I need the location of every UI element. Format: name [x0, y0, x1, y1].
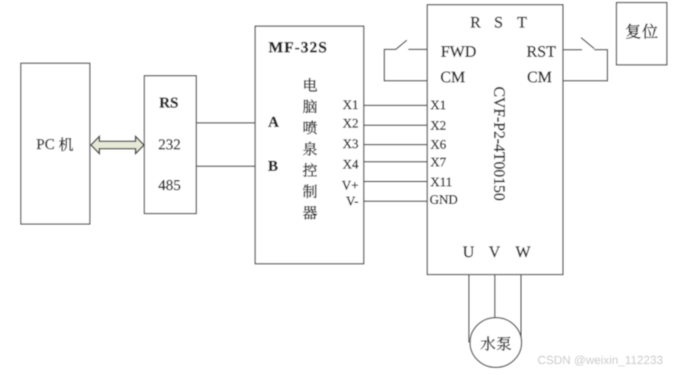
terminal CM (left): [441, 72, 465, 83]
terminal T: [517, 17, 526, 28]
wire down to CM (left): [383, 49, 385, 81]
pin label V+ (MF-32S): [342, 181, 358, 190]
terminal R: [471, 17, 481, 28]
terminal X2 (CVF): [431, 121, 446, 130]
box 复位 (reset): [617, 3, 667, 65]
pin label X1 (MF-32S): [343, 100, 358, 109]
terminal CM (right): [528, 72, 552, 83]
wire to X1: [364, 104, 428, 106]
switch blade (RST): [581, 38, 594, 49]
terminal RST: [527, 46, 556, 57]
motor 水泵 (pump) circle: [470, 318, 521, 368]
pin label V- (MF-32S): [346, 197, 358, 206]
wire switch right segment: [594, 49, 607, 51]
terminal W: [516, 247, 531, 258]
terminal S: [495, 17, 502, 28]
label RS: [160, 98, 178, 108]
switch blade (FWD): [396, 40, 407, 49]
pin label X3 (MF-32S): [343, 139, 358, 148]
terminal FWD: [441, 46, 475, 57]
label MF-32S: [269, 42, 326, 53]
terminal V: [489, 247, 500, 258]
label 485: [159, 180, 181, 190]
pin label A: [268, 117, 279, 127]
wire to CM terminal (left): [384, 80, 427, 82]
pin label X4 (MF-32S): [343, 160, 358, 169]
watermark CSDN @weixin_112233: [538, 356, 662, 367]
terminal U: [463, 247, 474, 258]
wire to X11: [364, 181, 428, 183]
connector double arrow: [91, 137, 144, 154]
pin label X2 (MF-32S): [343, 119, 358, 128]
label 232: [159, 139, 180, 149]
terminal X1 (CVF): [431, 101, 446, 110]
wire to X2: [364, 124, 428, 126]
wire to CM terminal (right): [563, 80, 608, 82]
wire to X6: [364, 144, 428, 146]
wire to X7: [364, 161, 428, 163]
terminal X6 (CVF): [431, 140, 446, 149]
wire A: RS box to MF-32S: [196, 122, 255, 124]
wire B: RS box to MF-32S: [196, 165, 255, 167]
wire switch left segment: [384, 48, 396, 50]
wire FWD stub: [408, 48, 427, 50]
wire U phase: [468, 274, 470, 342]
pin label B: [268, 161, 277, 171]
label PC机: [37, 137, 73, 151]
label 电脑喷泉控制器 (vertical): [303, 78, 317, 219]
wire down to CM (right): [606, 49, 608, 81]
wire W phase: [520, 274, 522, 340]
wire RST stub: [563, 49, 582, 51]
terminal X11 (CVF): [431, 178, 452, 187]
wire V phase: [494, 274, 496, 318]
label 复位: [626, 24, 658, 39]
label CVF-P2-4T00150 (vertical): [494, 87, 505, 200]
box MF-32S controller: [255, 26, 364, 264]
box PC: [21, 63, 90, 224]
label 水泵: [481, 336, 511, 350]
wire to GND: [364, 200, 428, 202]
box RS232/485: [144, 76, 196, 214]
box CVF-P2 inverter: [427, 5, 563, 275]
terminal GND (CVF): [430, 195, 457, 204]
terminal X7 (CVF): [431, 158, 446, 167]
